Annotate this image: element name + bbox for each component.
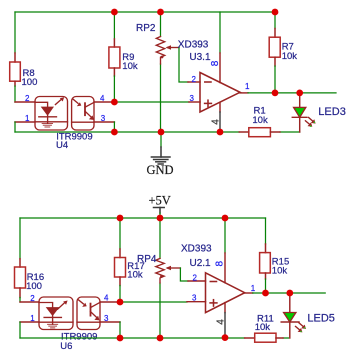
node junction dot top rail / R9 [111,9,118,16]
wire U6 pin4 to U2.1 pin3 [100,301,120,303]
svg-text:3: 3 [192,294,197,303]
svg-text:8: 8 [215,260,226,266]
node junction bottom rail / GND [158,129,165,136]
resistor R15 [265,218,267,244]
svg-text:U2.1: U2.1 [190,258,212,269]
wire left vertical to R8 [14,12,16,53]
resistor R1 [239,128,280,137]
LED3 [299,93,301,108]
resistor R9 [109,39,120,76]
wire RP2 wiper arrow to U3.1 pin2 [166,45,201,82]
wire U4 pin1 elbow to bottom rail [15,121,35,123]
svg-text:10k: 10k [252,115,268,126]
wire U6 pin1 elbow to bottom rail B [20,321,39,323]
wire U3.1 output [240,92,248,94]
svg-text:XD393: XD393 [178,40,209,51]
op-amp U3.1 [200,73,240,113]
wire R9 to pin4 node [113,76,115,102]
svg-text:XD393: XD393 [181,244,212,255]
potentiometer RP2 [160,12,162,132]
LED5 emission arrows [296,323,307,333]
ground GND [160,132,162,147]
pin 8 wire of U2.1 [224,218,226,253]
wire R9 vertical from top rail [113,12,115,39]
node junction dot top rail / RP2 [157,9,164,16]
node junction railB2 / U6 pin3 [117,335,124,342]
resistor R16 [19,218,21,259]
optocoupler U4 [35,97,94,131]
node junction outputB / LED5 [286,290,293,297]
wire U4 pin3 to bottom rail [94,121,114,123]
svg-text:GND: GND [147,163,174,177]
pin 8 wire of U3.1 [219,12,221,53]
svg-text:2: 2 [25,94,30,103]
LED3 emission arrows [305,117,315,126]
svg-text:10k: 10k [272,266,288,277]
svg-text:U3.1: U3.1 [189,52,211,63]
pin 4 wire of U3.1 [219,102,221,112]
resistor R11 [245,333,283,342]
svg-text:RP2: RP2 [136,23,156,34]
potentiometer RP4 [159,218,161,338]
op-amp U2.1 [206,273,245,313]
svg-text:+5V: +5V [149,194,171,208]
svg-text:10k: 10k [282,51,298,62]
svg-text:10k: 10k [122,61,138,72]
wire RP4 wiper arrow to U2.1 pin2 [166,266,206,281]
wire bottom rail B [20,337,245,339]
wire top rail [15,11,275,13]
svg-text:U6: U6 [60,341,72,352]
svg-text:1: 1 [30,314,35,323]
svg-text:100: 100 [26,281,42,292]
node junction railB2 / U2.1 pin4 [222,334,229,341]
wire R17 to U6 pin4 node [119,286,121,303]
resistor R7 [274,12,276,29]
svg-text:10k: 10k [255,322,271,333]
wire top rail bottom section [20,217,266,219]
resistor R17 [119,218,121,249]
node junction railB2 / RP4 [157,335,164,342]
resistor R8 [10,53,21,86]
svg-text:2: 2 [193,273,198,282]
node junction U4 pin4 / R9 [111,99,118,106]
svg-text:4: 4 [211,119,222,125]
svg-text:2: 2 [30,294,35,303]
svg-text:2: 2 [192,75,197,84]
svg-text:1: 1 [245,82,250,91]
svg-text:RP4: RP4 [137,254,157,265]
wire R8 to U4 pin2 [14,86,16,102]
node junction dot top rail / R7 [272,9,279,16]
pin 4 wire of U2.1 [224,303,226,313]
wire bottom rail top section [15,131,239,133]
svg-text:U4: U4 [56,140,68,151]
node junction railB / R17 [117,215,124,222]
node junction railB / +5V [157,215,164,222]
svg-text:LED3: LED3 [318,106,346,118]
node junction bottom rail / U3.1 pin4 [217,129,224,136]
node junction U6 pin4 / R17 [117,299,124,306]
wire R16 to U6 pin2 [19,298,21,303]
svg-text:8: 8 [210,60,221,66]
wire U6 pin3 to bottom rail B [100,321,120,323]
node junction outputB / R15 [262,290,269,297]
svg-text:100: 100 [22,77,38,88]
wire U4 pin4 to U3.1 pin3 [94,101,114,103]
svg-text:1: 1 [25,114,30,123]
svg-text:4: 4 [104,294,109,303]
svg-text:3: 3 [190,94,195,103]
optocoupler U6 [39,297,100,330]
LED5 [289,293,291,313]
power +5V [154,208,165,214]
svg-text:1: 1 [251,284,256,293]
svg-text:4: 4 [215,319,226,325]
node junction railB / U2.1 pin8 [222,215,229,222]
wire U2.1 output [245,292,253,294]
node junction bottom rail / U4 pin3 [111,129,118,136]
node junction output / R7 [272,90,279,97]
node junction output / LED3 [296,90,303,97]
svg-text:10k: 10k [127,270,143,281]
svg-text:LED5: LED5 [307,312,335,324]
